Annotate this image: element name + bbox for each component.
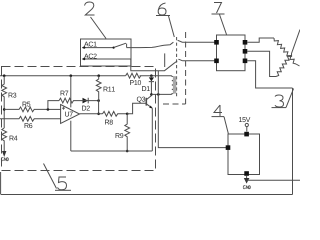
label 5 <box>55 177 71 190</box>
node coil bottom cross <box>157 93 160 96</box>
dashed module boundary <box>185 32 187 104</box>
wire 15V to box 4 <box>246 127 248 132</box>
supply terminal circle <box>245 123 248 126</box>
diode D1 <box>142 76 154 95</box>
pointer to 6 <box>169 16 175 37</box>
wire left rail mid <box>3 99 5 128</box>
coil bottom rail <box>151 93 171 95</box>
wire pin R3b return <box>247 61 292 88</box>
ground rail wire right <box>247 179 300 181</box>
wire to ground <box>3 144 5 151</box>
outer enclosure left edge stub <box>0 172 2 195</box>
wire op-amp output <box>80 113 103 115</box>
resistor R4 <box>2 128 18 144</box>
label 3 <box>272 95 287 108</box>
pin R2 <box>243 49 248 54</box>
connector 6 right contact lower <box>178 59 216 61</box>
node R8 output <box>126 113 129 116</box>
wire transformer primary left <box>158 71 228 148</box>
box 2 AC input <box>81 39 132 66</box>
label 7 <box>212 3 225 15</box>
node R5 input <box>3 108 6 111</box>
pin L1 <box>214 40 219 45</box>
wire AC1 <box>82 47 113 49</box>
wire motor winding B feed <box>247 51 276 76</box>
wire Q3 emitter <box>151 108 153 151</box>
wire feedback to output <box>98 101 100 114</box>
pointer to 2 <box>91 17 107 39</box>
resistor R7 <box>59 91 81 103</box>
wire AC1 to connector <box>127 42 174 47</box>
wire Q3 collector <box>150 94 152 95</box>
connector 6 mating dashed line <box>176 37 178 97</box>
label AC2 <box>84 54 97 59</box>
node bus R11 tap <box>97 74 100 77</box>
resistor R6 <box>0 116 61 128</box>
feedback wire <box>48 101 59 110</box>
dashed module bottom <box>163 103 186 105</box>
node bus D1 tap <box>150 74 153 77</box>
main bus wire <box>0 75 172 77</box>
outer enclosure bottom line <box>1 194 293 196</box>
box 4 <box>228 134 260 175</box>
label 2 <box>85 2 95 15</box>
wire op-amp supply stub <box>70 101 72 108</box>
node coil bottom rail left <box>150 93 153 96</box>
motor winding A <box>274 38 296 64</box>
node bus R7 tap <box>70 74 73 77</box>
ground box 4 <box>243 178 250 189</box>
pointer to 7 <box>220 15 227 35</box>
pin L2 <box>214 59 219 64</box>
node AC1 terminal <box>83 46 85 48</box>
wire AC2 <box>82 59 177 71</box>
node common rail R9 <box>126 150 129 153</box>
node feedback tap <box>47 108 50 111</box>
pin R3b <box>243 59 248 64</box>
diode D2 <box>81 98 99 111</box>
resistor R3 <box>2 76 17 99</box>
wire box 4 ground <box>246 176 248 178</box>
label 15V <box>239 117 250 122</box>
op-amp U7 <box>61 105 80 124</box>
wire motor winding A feed <box>247 38 274 42</box>
node D2 cathode <box>97 99 100 102</box>
common rail wire <box>71 150 153 152</box>
dashed box 5 <box>2 67 156 171</box>
pin top <box>244 132 249 137</box>
wire to Q3 base <box>127 103 141 114</box>
node AC2 terminal <box>83 58 85 60</box>
pin bottom <box>244 171 249 176</box>
label 4 <box>212 105 225 117</box>
pointer to 3 <box>286 89 294 108</box>
resistor R11 <box>96 76 115 101</box>
connector 6 right contact upper <box>178 40 217 42</box>
node op-amp output <box>97 113 100 116</box>
wire bus tap to feedback <box>70 76 72 101</box>
label AC1 <box>84 42 97 47</box>
resistor R5 <box>4 102 48 112</box>
ground <box>1 151 8 161</box>
pin R1 <box>243 40 248 45</box>
outer enclosure right edge <box>292 88 294 195</box>
wire winding B to top right <box>292 30 301 54</box>
switch K1 contact <box>113 43 127 49</box>
relay coil K1 <box>172 76 176 95</box>
relay linkage stub <box>164 53 166 67</box>
box 7 <box>217 35 246 71</box>
resistor P10 <box>126 73 141 85</box>
label 6 <box>156 3 170 16</box>
wire op-amp ground leg <box>70 121 72 151</box>
motor winding B <box>276 54 292 77</box>
wire winding A tail <box>296 64 300 66</box>
node bus left <box>3 74 6 77</box>
transistor Q3 <box>137 96 152 109</box>
resistor R9 <box>116 114 130 151</box>
wire R5 to op-amp <box>48 108 61 110</box>
pointer to 4 <box>224 117 228 134</box>
pin left <box>226 145 231 150</box>
pointer to 5 <box>44 164 57 189</box>
resistor R8 <box>103 111 128 124</box>
